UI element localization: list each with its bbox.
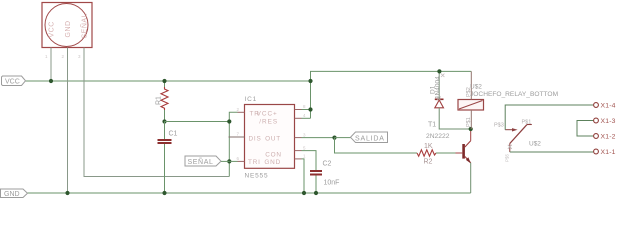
wire top rail to relay (310, 70, 471, 72)
pin cross switch pivot (508, 145, 512, 149)
capacitor C2 (310, 171, 322, 175)
wire VCC rail (26, 80, 311, 82)
junction dot IC GND (302, 191, 306, 195)
svg-text:1N4004: 1N4004 (435, 76, 442, 99)
sensor pin 1 wire to VCC rail (50, 48, 52, 82)
wire OUT down to R2 (335, 138, 418, 153)
connector pad X1-1 (594, 149, 599, 154)
junction dot VCC-sensor (49, 79, 53, 83)
net label SALIDA (351, 132, 388, 143)
svg-text:R1: R1 (156, 96, 163, 105)
resistor R1 (161, 87, 168, 110)
wire R1 bottom (164, 110, 166, 122)
junction dot GND-sensor (65, 191, 69, 195)
sensor pin 3 wire SEÑAL (84, 48, 229, 177)
pin cross diode top (441, 74, 444, 77)
wire /RES to rail (302, 117, 311, 119)
connector pad X1-3 (594, 118, 599, 123)
connector pad X1-2 (594, 134, 599, 139)
svg-text:R2: R2 (424, 159, 433, 166)
svg-text:1K: 1K (424, 143, 433, 150)
relay switch common pin P$3 arrow (505, 128, 517, 131)
junction dot diode rail (437, 69, 441, 73)
svg-text:SEÑAL: SEÑAL (80, 13, 89, 38)
pin cross diode cathode (437, 97, 441, 101)
wire SEÑAL vertical to THR node (228, 122, 230, 177)
IC1 pin 1 GND stub (295, 158, 302, 160)
wire R1 node to TR (165, 112, 238, 121)
wire C1 bottom to GND (164, 144, 166, 193)
wire GND rail (28, 192, 471, 194)
relay switch arm (510, 125, 532, 153)
wire THR stub (229, 160, 237, 162)
relay coil pin P$2 (470, 71, 472, 99)
junction dot R1 top (162, 79, 166, 83)
relay U$2 coil (458, 100, 484, 111)
svg-text:P$3: P$3 (494, 123, 504, 129)
wire VCC+ to rail (302, 109, 311, 111)
junction dot TR branch (227, 119, 231, 123)
resistor R2 (417, 150, 436, 156)
junction dot R1 bottom node (162, 119, 166, 123)
wire emitter down to GND (470, 163, 472, 193)
wire C1 top (164, 122, 166, 140)
junction dot VCC+ (308, 107, 312, 111)
junction dot rail corner (308, 79, 312, 83)
wire X1-1 net (510, 151, 594, 153)
IC1 pin 2 TR stub (238, 111, 245, 113)
transistor Q1 2N2222 (462, 141, 471, 164)
svg-text:GND: GND (4, 191, 20, 198)
sensor pin 2 wire to GND rail (67, 48, 69, 194)
svg-text:VCC: VCC (49, 21, 56, 37)
svg-text:X1-4: X1-4 (601, 103, 616, 110)
svg-text:2N2222: 2N2222 (426, 133, 450, 140)
wire R2 to base (436, 152, 456, 154)
net label SEÑAL (185, 156, 221, 166)
wire diode cathode to rail (438, 71, 440, 99)
svg-text:T1: T1 (428, 122, 436, 129)
svg-text:DIS: DIS (249, 136, 262, 143)
svg-text:OUT: OUT (265, 136, 281, 143)
svg-text:X1-2: X1-2 (601, 134, 616, 141)
svg-text:SALIDA: SALIDA (355, 135, 385, 142)
junction dot collector node (469, 127, 473, 131)
capacitor C1 (158, 140, 172, 143)
sensor module U1 box (42, 3, 92, 48)
svg-text:CON: CON (265, 152, 282, 159)
relay coil pin P$1 (470, 110, 472, 129)
wire R1 top to rail (164, 81, 166, 87)
supply flag GND (1, 189, 28, 198)
junction dot C1 GND (162, 191, 166, 195)
svg-text:P$1: P$1 (522, 120, 532, 126)
svg-text:U$2: U$2 (529, 141, 541, 148)
svg-text:X1-1: X1-1 (601, 149, 616, 156)
svg-text:SEÑAL: SEÑAL (188, 157, 214, 166)
svg-text:X1-3: X1-3 (601, 118, 616, 125)
IC1 pin 7 DIS stub (229, 136, 245, 138)
IC1 pin 5 CON stub (295, 150, 302, 152)
svg-text:IC1: IC1 (245, 96, 258, 103)
IC1 pin 6 THR stub (238, 160, 245, 162)
svg-text:P$5: P$5 (505, 153, 510, 162)
svg-text:VCC: VCC (5, 79, 20, 86)
svg-text:U$2: U$2 (470, 84, 482, 91)
svg-text:GND: GND (65, 20, 72, 37)
wire CON to C2 (302, 151, 317, 170)
junction dot THR-SEÑAL (227, 159, 231, 163)
svg-text:/RES: /RES (259, 119, 278, 126)
IC1 pin 4 RES stub (295, 117, 302, 119)
wire OUT net (302, 137, 335, 139)
junction dot OUT (332, 136, 336, 140)
svg-text:JOCHEFO_RELAY_BOTTOM: JOCHEFO_RELAY_BOTTOM (470, 91, 558, 98)
svg-text:10nF: 10nF (324, 180, 340, 187)
svg-text:C2: C2 (323, 161, 332, 168)
wire diode anode to collector node (439, 108, 471, 129)
op IC1 NE555 box (245, 105, 295, 169)
svg-text:VCC+: VCC+ (257, 111, 278, 118)
svg-text:TRI: TRI (248, 159, 261, 166)
svg-text:C1: C1 (169, 131, 178, 138)
IC1 pin 3 OUT stub (295, 137, 302, 139)
wire C2 bottom to GND (315, 176, 317, 194)
IC1 pin 8 VCC stub (295, 109, 302, 111)
svg-text:GND: GND (264, 159, 281, 166)
connector pad X1-4 (594, 103, 599, 108)
wire OUT to flag (335, 137, 351, 139)
junction dot C2 GND (314, 191, 318, 195)
wire collector up (470, 129, 472, 141)
wire SEÑAL flag stub (221, 160, 229, 162)
wire X1-3 to X1-2 bracket (577, 121, 593, 137)
svg-text:P$1: P$1 (466, 117, 472, 127)
supply flag VCC (2, 76, 26, 86)
transistor Q1 base stub (456, 152, 463, 154)
diode D1 (435, 99, 444, 108)
wire IC GND pin down (302, 159, 305, 193)
svg-text:NE555: NE555 (245, 173, 269, 180)
wire vertical VCC step at x310 (310, 71, 312, 118)
wire X1-4 net (505, 105, 593, 130)
